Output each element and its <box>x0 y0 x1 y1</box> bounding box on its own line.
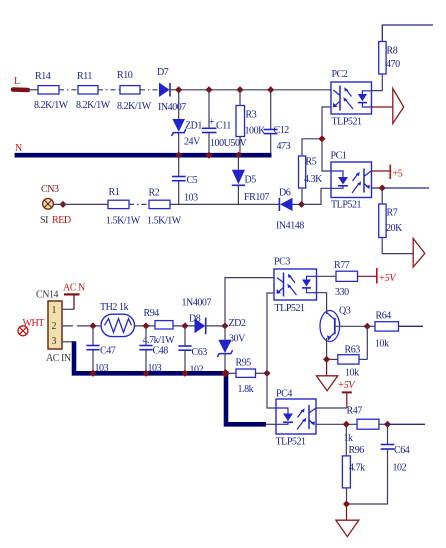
ground Q3 <box>316 359 337 390</box>
svg-text:+5: +5 <box>393 169 403 180</box>
svg-text:30V: 30V <box>229 334 246 345</box>
wire PC1 out <box>372 187 430 189</box>
wire PC3 to Q3 <box>317 293 327 313</box>
junction R47 left <box>343 421 350 428</box>
svg-text:R63: R63 <box>345 345 361 356</box>
svg-text:AC N: AC N <box>63 283 85 294</box>
resistor R94 4.7k/1W <box>143 308 176 346</box>
wire PC4 bottom-left stub <box>266 423 276 425</box>
capacitor C48 103 <box>139 326 168 374</box>
wire lower rail <box>53 203 301 205</box>
svg-text:100U50V: 100U50V <box>210 138 248 149</box>
junction R95 out <box>263 370 270 377</box>
resistor R64 10k <box>367 311 423 350</box>
svg-text:1k: 1k <box>344 433 354 444</box>
diode D7 <box>157 67 186 113</box>
diode D8 1N4007 <box>182 298 212 335</box>
power flag AC N <box>63 283 85 310</box>
svg-text:4.3K: 4.3K <box>304 174 323 185</box>
svg-text:RED: RED <box>52 215 71 226</box>
capacitor C11 100U50V <box>202 90 248 153</box>
wire R47 out <box>388 423 426 425</box>
transistor Q3 <box>320 306 351 360</box>
capacitor C63 102 <box>178 326 207 376</box>
svg-text:TLP521: TLP521 <box>275 303 306 314</box>
wire PC4 top-right <box>316 407 347 409</box>
ground R96 <box>336 504 359 537</box>
svg-text:R2: R2 <box>149 188 160 199</box>
junction bus C63 <box>181 370 188 377</box>
svg-text:4.7k: 4.7k <box>349 463 365 474</box>
svg-text:D6: D6 <box>279 188 291 199</box>
svg-text:1: 1 <box>52 305 57 316</box>
svg-text:TLP521: TLP521 <box>331 200 362 211</box>
wire CN14 pin3 <box>62 341 72 343</box>
svg-text:N: N <box>15 143 22 154</box>
svg-text:AC IN: AC IN <box>46 353 71 364</box>
junction ZD2 top <box>221 322 228 329</box>
node L stub <box>13 87 28 92</box>
wire Q3 base <box>335 325 368 327</box>
junction R5 bottom node <box>298 201 305 208</box>
capacitor C47 103 <box>86 326 115 374</box>
svg-text:ZD2: ZD2 <box>229 318 246 329</box>
resistor R7 20K <box>379 188 403 238</box>
svg-text:R3: R3 <box>246 110 257 121</box>
junction pin2 C47 <box>89 322 96 329</box>
wire lower to PC1 <box>302 188 332 204</box>
wire PC2 to PC1 vertical <box>322 107 331 171</box>
svg-text:2: 2 <box>52 321 57 332</box>
svg-text:3: 3 <box>52 336 57 347</box>
svg-text:ZD1: ZD1 <box>185 121 202 132</box>
svg-text:CN14: CN14 <box>36 290 59 301</box>
svg-text:SI: SI <box>40 215 48 226</box>
junction CN3 out <box>59 201 66 208</box>
capacitor C12 473 <box>264 90 291 153</box>
svg-text:PC1: PC1 <box>331 151 347 162</box>
svg-text:+5V: +5V <box>338 380 357 391</box>
wire R7 to arrow <box>382 238 413 254</box>
wire PC2 out <box>372 106 393 108</box>
svg-text:R11: R11 <box>77 71 92 82</box>
power +5 flag <box>372 165 403 180</box>
svg-text:1.8k: 1.8k <box>238 384 254 395</box>
svg-text:PC3: PC3 <box>274 257 290 268</box>
svg-text:C11: C11 <box>216 121 231 132</box>
svg-text:L: L <box>14 76 20 87</box>
svg-text:8.2K/1W: 8.2K/1W <box>117 101 152 112</box>
diode D5 FR107 <box>232 155 270 204</box>
svg-text:4.7k/1W: 4.7k/1W <box>143 335 176 346</box>
svg-text:FR107: FR107 <box>244 192 269 203</box>
svg-text:R7: R7 <box>387 208 398 219</box>
svg-text:D7: D7 <box>157 67 169 78</box>
opto PC4 TLP521 <box>276 389 317 448</box>
junction bus ZD2 <box>221 369 229 377</box>
junction node top D <box>267 86 274 93</box>
svg-text:C12: C12 <box>274 125 290 136</box>
junction PC1 out <box>379 184 386 191</box>
svg-text:R77: R77 <box>334 260 350 271</box>
junction pin2 C63 <box>181 322 188 329</box>
svg-text:R8: R8 <box>387 46 398 57</box>
node WHT label <box>18 318 44 336</box>
signal arrow R7 out <box>413 239 425 268</box>
svg-text:TLP521: TLP521 <box>332 117 363 128</box>
resistor R2 <box>147 188 182 227</box>
junction pin2 C48 <box>142 322 149 329</box>
junction bus C47 <box>89 370 96 377</box>
junction node top A <box>175 86 182 93</box>
power +5V flag R77 <box>358 268 398 284</box>
svg-text:Q3: Q3 <box>339 306 351 317</box>
node L label <box>14 76 20 87</box>
resistor R8 470 <box>372 42 401 91</box>
resistor R14 <box>34 71 69 111</box>
svg-text:D8: D8 <box>189 314 201 325</box>
svg-text:C47: C47 <box>100 346 116 357</box>
wire N bus thick <box>15 153 272 158</box>
svg-text:103: 103 <box>184 193 198 204</box>
power +5V flag PC4 <box>338 380 357 408</box>
junction bus C48 <box>142 370 149 377</box>
svg-text:R64: R64 <box>376 311 392 322</box>
junction R47 right <box>384 421 391 428</box>
svg-text:470: 470 <box>386 59 400 70</box>
svg-text:24V: 24V <box>184 137 201 148</box>
junction R96 bottom <box>343 500 350 507</box>
svg-text:+: + <box>209 117 215 128</box>
connector CN14 <box>36 290 71 365</box>
svg-text:R47: R47 <box>347 406 363 417</box>
svg-text:8.2K/1W: 8.2K/1W <box>34 100 69 111</box>
resistor R95 1.8k <box>228 358 267 396</box>
svg-text:C63: C63 <box>192 347 208 358</box>
opto PC1 TLP521 <box>331 151 372 211</box>
resistor R1 <box>106 187 141 227</box>
wire PC3 bottom to PC4 top <box>267 293 276 408</box>
svg-text:R95: R95 <box>236 358 252 369</box>
svg-text:473: 473 <box>277 141 291 152</box>
resistor R63 10k <box>327 326 368 378</box>
junction Q3 base R64 <box>364 323 371 330</box>
capacitor C64 102 <box>347 424 410 504</box>
svg-text:CN3: CN3 <box>41 184 59 195</box>
wire top L rail <box>28 89 331 91</box>
wire PC3 in top <box>225 278 274 326</box>
resistor R5 4.3K <box>299 139 324 205</box>
svg-text:IN4148: IN4148 <box>276 221 304 232</box>
svg-text:8.2K/1W: 8.2K/1W <box>76 100 111 111</box>
zener ZD1 24V <box>172 90 203 153</box>
svg-text:TH2 1k: TH2 1k <box>100 302 129 313</box>
opto PC3 TLP521 <box>274 257 317 315</box>
junction Q3 emitter <box>323 356 330 363</box>
resistor R96 4.7k <box>342 424 365 504</box>
svg-text:1.5K/1W: 1.5K/1W <box>106 216 141 227</box>
svg-text:R1: R1 <box>109 187 120 198</box>
svg-text:R14: R14 <box>35 71 51 82</box>
op-amp U none : opto PC2 TLP521 <box>331 69 372 128</box>
zener ZD2 30V <box>217 318 246 373</box>
junction node top B <box>205 86 212 93</box>
svg-text:1.5K/1W: 1.5K/1W <box>147 216 182 227</box>
svg-text:10k: 10k <box>375 339 389 350</box>
resistor R11 <box>76 71 111 111</box>
svg-text:R96: R96 <box>349 445 365 456</box>
svg-text:330: 330 <box>335 287 349 298</box>
junction bus B <box>205 152 212 159</box>
svg-text:C64: C64 <box>394 445 410 456</box>
svg-text:20K: 20K <box>386 223 403 234</box>
svg-text:PC4: PC4 <box>276 389 292 400</box>
junction node top C <box>236 86 243 93</box>
svg-text:R10: R10 <box>117 70 133 81</box>
svg-text:R94: R94 <box>144 308 160 319</box>
thermistor TH2 1k <box>100 302 135 337</box>
resistor R10 <box>117 70 152 112</box>
capacitor C5 103 <box>172 155 198 204</box>
svg-text:D5: D5 <box>245 175 257 186</box>
connector CN3 <box>40 184 71 226</box>
wire top-right entry <box>382 25 433 42</box>
resistor R3 100K <box>236 90 266 153</box>
junction R5 top node <box>318 135 325 142</box>
svg-text:PC2: PC2 <box>332 69 348 80</box>
node N label <box>15 143 22 154</box>
wire CN14 pin1 <box>62 308 74 310</box>
svg-text:IN4007: IN4007 <box>158 102 186 113</box>
svg-text:+5V: +5V <box>379 273 398 284</box>
wire thick AC bus <box>74 341 266 424</box>
svg-text:C48: C48 <box>153 346 169 357</box>
signal arrow PC2 out <box>393 89 404 124</box>
resistor R47 1k <box>344 406 388 445</box>
svg-text:100K: 100K <box>245 126 267 137</box>
wire CN14 pin2 rail <box>62 325 225 327</box>
junction bus C <box>235 152 242 159</box>
svg-text:C5: C5 <box>187 175 198 186</box>
svg-text:TLP521: TLP521 <box>276 437 307 448</box>
svg-text:R5: R5 <box>306 157 317 168</box>
wire PC4 bottom-right <box>316 423 357 425</box>
svg-text:10k: 10k <box>345 368 359 379</box>
diode D6 IN4148 <box>276 188 304 232</box>
resistor R77 330 <box>317 260 358 298</box>
junction bus A <box>175 152 182 159</box>
svg-text:1N4007: 1N4007 <box>182 298 212 309</box>
svg-text:102: 102 <box>393 463 407 474</box>
